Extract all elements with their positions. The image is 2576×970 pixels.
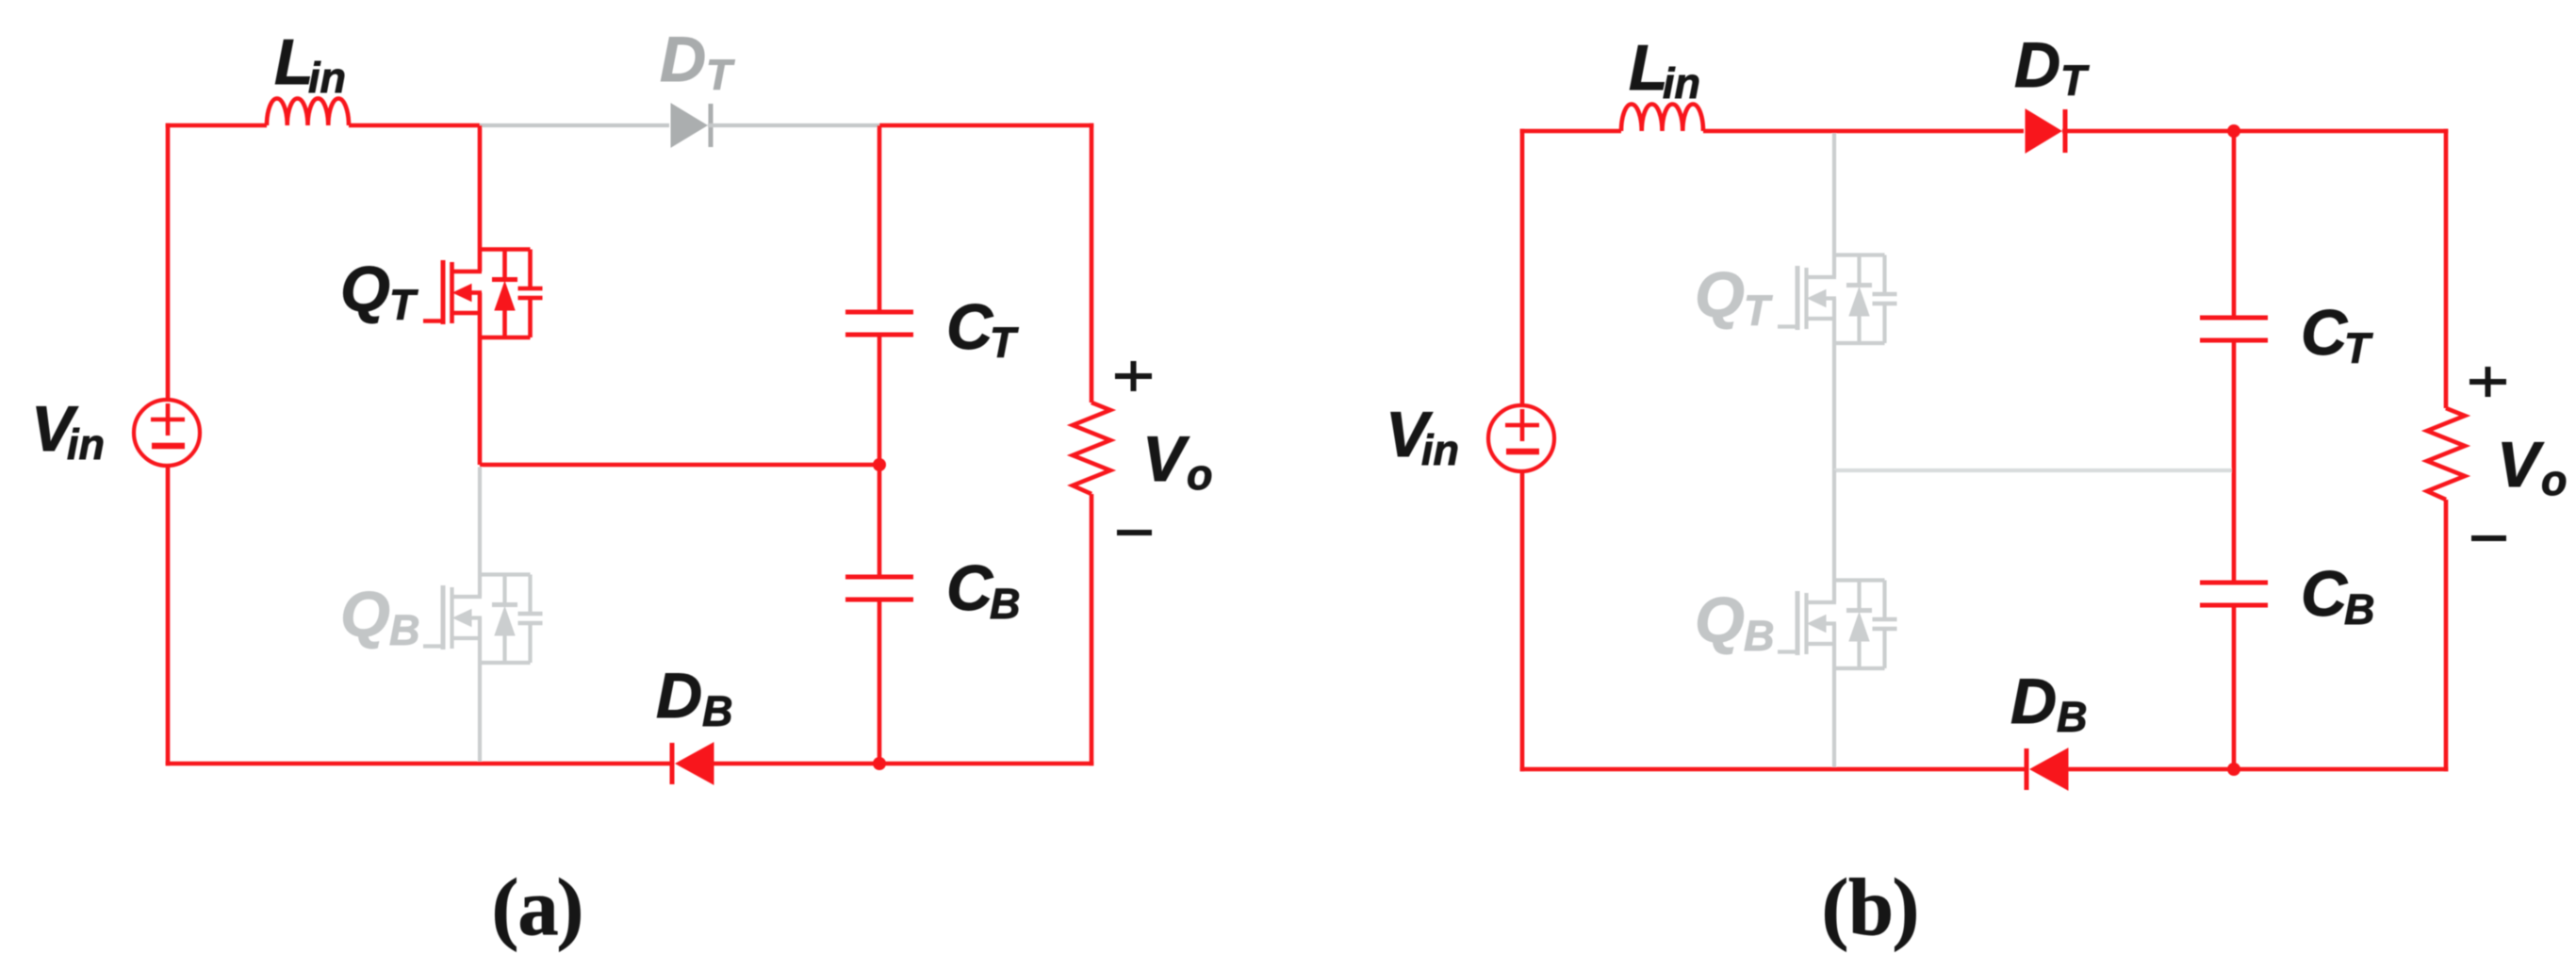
wire: bottom rail, bottom-left corner to diode DB (a) (166, 762, 670, 766)
wire: drain of QT from top rail (b) (1832, 133, 1836, 277)
diode DT (a) (671, 104, 707, 147)
wire: source of QT down to mid node (a) (478, 293, 483, 466)
wire: top rail, inductor to switch node (a) (349, 123, 480, 128)
minus polarity mark of Vo (b) (2471, 535, 2506, 541)
svg-text:T: T (706, 51, 735, 99)
svg-text:B: B (2057, 693, 2088, 741)
wire: right rail lower, load resistor to bottom-right corner (b) (2444, 500, 2449, 771)
wire: left rail upper, source Vin to top-left corner (b) (1520, 129, 1525, 405)
inductor Lin (a) (267, 98, 349, 125)
wire: capacitor CT to mid node (a) (878, 335, 882, 465)
svg-text:in: in (308, 54, 346, 102)
svg-text:B: B (990, 580, 1021, 628)
wire: top rail left, source to inductor (b) (1520, 129, 1621, 134)
svg-text:in: in (1421, 426, 1459, 474)
node M junction dot (a) (873, 458, 886, 471)
svg-text:C: C (2301, 558, 2348, 630)
svg-text:D: D (660, 24, 706, 95)
wire: capacitor CB to node B (b) (2232, 605, 2237, 769)
wire: top rail, node A to top-right corner (a) (879, 123, 1093, 128)
wire: top rail, inductor to switch node (b) (1703, 129, 1834, 134)
wire: bottom rail, bottom-left corner to diode DB (b) (1520, 767, 2025, 772)
svg-text:T: T (1744, 287, 1773, 335)
inductor Lin (b) (1621, 105, 1703, 132)
wire: mid rail, switch node to capacitor mid node (a) (480, 463, 879, 468)
wire: source of QT down to mid node (b) (1832, 299, 1836, 471)
svg-text:(: ( (1822, 862, 1849, 952)
svg-text:T: T (2060, 57, 2090, 105)
svg-text:Q: Q (1695, 584, 1745, 656)
wire: drain of QB from mid node (b) (1832, 470, 1836, 602)
wire: right rail lower, load resistor to bottom-right corner (a) (1090, 494, 1094, 765)
svg-text:in: in (67, 420, 105, 469)
svg-text:in: in (1663, 59, 1700, 107)
capacitor CT (a) (845, 310, 913, 315)
capacitor CB (a) (845, 575, 913, 580)
wire: node A down to capacitor CT (a) (878, 125, 882, 312)
wire: top rail, diode DT to node A (a) (708, 123, 879, 127)
plus polarity mark of Vo (a) (1115, 373, 1152, 379)
svg-text:o: o (2541, 456, 2568, 504)
svg-text:b: b (1848, 862, 1894, 952)
wire: top rail, diode DT to node A (b) (2062, 129, 2234, 134)
node B junction dot (a) (873, 757, 886, 770)
svg-text:C: C (946, 291, 993, 363)
svg-text:T: T (990, 319, 1019, 367)
wire: right rail upper, to load resistor (b) (2444, 129, 2449, 408)
svg-text:Q: Q (1695, 259, 1745, 331)
wire: left rail lower, Vin to bottom-left corner (a) (166, 466, 171, 765)
svg-text:a: a (518, 862, 559, 952)
svg-text:Q: Q (340, 254, 390, 325)
Vin plus marking (b) (1505, 423, 1539, 428)
svg-text:V: V (1142, 423, 1190, 495)
resistor Vo load (a) (1073, 403, 1110, 494)
node B junction dot (b) (2227, 763, 2240, 776)
wire: node A down to capacitor CT (b) (2232, 131, 2237, 318)
wire: top rail, switch node to diode DT (b) (1834, 129, 2024, 134)
wire: top rail, node A to top-right corner (b) (2234, 129, 2448, 134)
wire: top rail left, source to inductor (a) (166, 123, 267, 128)
diode DT (b) (2026, 109, 2061, 153)
capacitor CB (b) (2200, 581, 2268, 585)
wire: source of QB down to bottom rail (a) (478, 618, 482, 762)
wire: drain of QB from mid node (a) (478, 467, 482, 597)
svg-text:C: C (2301, 297, 2348, 369)
wire: source of QB down to bottom rail (b) (1832, 624, 1836, 767)
svg-text:D: D (2014, 29, 2060, 101)
transistor QT (MOSFET with body diode) (a) (480, 247, 531, 252)
wire: bottom rail, diode DB to node B (a) (712, 762, 879, 766)
diode DB (a) (670, 743, 675, 784)
wire: left rail lower, Vin to bottom-left corner (b) (1520, 471, 1525, 771)
svg-text:D: D (656, 660, 702, 732)
svg-text:B: B (702, 687, 733, 735)
wire: capacitor CB to node B (a) (878, 600, 882, 764)
svg-text:C: C (946, 552, 993, 624)
svg-text:B: B (389, 606, 420, 654)
transistor QB (MOSFET with body diode) (b) (1834, 578, 1885, 582)
Vin minus marking (a) (152, 443, 185, 450)
transistor QB (MOSFET with body diode) (a) (480, 572, 531, 576)
resistor Vo load (b) (2427, 408, 2465, 500)
svg-text:): ) (557, 862, 584, 952)
svg-text:Q: Q (340, 579, 390, 650)
wire: mid rail, switch node to capacitor mid node (b) (1834, 469, 2234, 472)
wire: bottom rail, node B to bottom-right corner (a) (879, 762, 1093, 766)
wire: left rail upper, source Vin to top-left corner (a) (166, 123, 171, 400)
node A junction dot (b) (2227, 124, 2240, 138)
voltage source Vin (b) (1488, 405, 1554, 471)
svg-text:T: T (389, 281, 418, 329)
wire: drain of QT from top rail (a) (478, 125, 483, 271)
wire: capacitor CT to mid node (b) (2232, 340, 2237, 470)
wire: right rail upper, to load resistor (a) (1090, 123, 1094, 403)
svg-text:D: D (2010, 666, 2057, 737)
svg-text:B: B (2344, 585, 2375, 633)
voltage source Vin (a) (134, 400, 200, 466)
wire: top rail, switch node to diode DT (a) (480, 123, 669, 127)
capacitor CT (b) (2200, 316, 2268, 321)
Vin minus marking (b) (1506, 449, 1539, 455)
svg-text:T: T (2344, 324, 2373, 372)
svg-text:o: o (1187, 451, 1213, 499)
diode DB (b) (2025, 748, 2029, 790)
svg-text:(: ( (492, 862, 519, 952)
svg-text:B: B (1744, 612, 1775, 660)
svg-text:V: V (2497, 429, 2545, 501)
Vin plus marking (a) (151, 418, 185, 422)
svg-text:): ) (1893, 862, 1920, 952)
transistor QT (MOSFET with body diode) (b) (1834, 253, 1885, 256)
wire: mid node down to capacitor CB (b) (2232, 470, 2237, 583)
wire: bottom rail, diode DB to node B (b) (2066, 767, 2234, 772)
wire: bottom rail, node B to bottom-right corner (b) (2234, 767, 2448, 772)
plus polarity mark of Vo (b) (2469, 379, 2506, 385)
minus polarity mark of Vo (a) (1117, 530, 1152, 535)
wire: mid node down to capacitor CB (a) (878, 465, 882, 577)
